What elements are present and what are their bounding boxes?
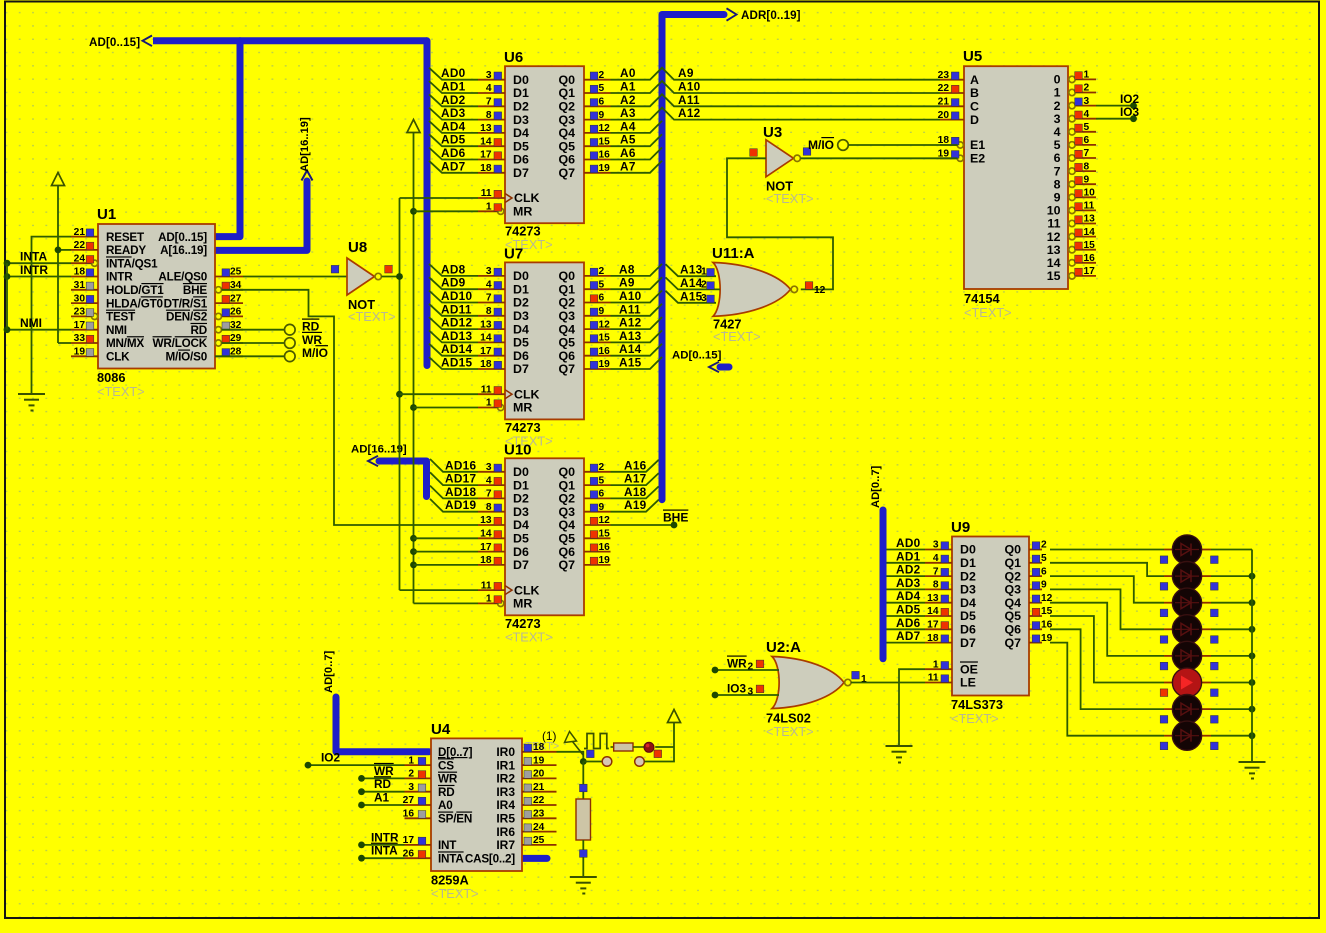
wire vcc rail to U6/U7/U10 MR and U10 D5-D7 <box>413 133 415 604</box>
svg-text:D6: D6 <box>513 545 529 559</box>
LED D8 <box>1160 721 1218 750</box>
svg-text:9: 9 <box>1084 174 1090 185</box>
svg-text:A: A <box>970 73 979 87</box>
svg-text:MR: MR <box>513 401 532 415</box>
U1 right pin 29 WR/LOCK <box>153 333 243 350</box>
U7 pin 8 D3 input AD11 <box>429 302 529 323</box>
svg-text:7: 7 <box>1084 148 1090 159</box>
svg-text:7: 7 <box>486 293 492 304</box>
svg-text:U9: U9 <box>951 519 970 536</box>
svg-text:D1: D1 <box>513 86 529 100</box>
svg-text:AD1: AD1 <box>896 549 921 563</box>
svg-text:8: 8 <box>1054 177 1061 191</box>
svg-text:2: 2 <box>1041 540 1047 551</box>
svg-text:Q3: Q3 <box>558 505 575 519</box>
svg-text:<TEXT>: <TEXT> <box>766 724 814 739</box>
svg-text:AD19: AD19 <box>445 498 476 512</box>
U5 pin 8 output 7 <box>1054 161 1096 178</box>
U1 right pin 28 M/IO/S0 <box>166 347 244 364</box>
svg-text:6: 6 <box>1084 135 1090 146</box>
svg-text:D4: D4 <box>513 518 529 532</box>
U9 pin 12 Q4 output <box>1004 593 1052 610</box>
U9 pin 8 D3 from bus AD3 <box>887 576 976 597</box>
wire to U10 MR <box>414 602 479 604</box>
svg-text:2: 2 <box>408 769 414 780</box>
U9 pin 18 D7 from bus AD7 <box>887 629 976 650</box>
svg-text:Q6: Q6 <box>558 153 575 167</box>
svg-text:A6: A6 <box>620 146 636 160</box>
svg-text:INTR: INTR <box>371 830 399 844</box>
svg-text:U5: U5 <box>963 48 982 65</box>
wire BHE from U1 to U10 D4 <box>222 290 479 525</box>
svg-text:D6: D6 <box>960 623 976 637</box>
junction U7 CLK tap <box>396 391 403 398</box>
svg-text:A0: A0 <box>438 799 453 812</box>
svg-text:11: 11 <box>481 580 492 591</box>
U9 pin 13 D4 from bus AD4 <box>887 589 976 610</box>
svg-text:11: 11 <box>1047 217 1060 231</box>
svg-text:Q4: Q4 <box>558 518 575 532</box>
wire U6 Q7 (A7) into bus <box>611 159 663 173</box>
svg-text:2: 2 <box>748 662 754 673</box>
svg-text:A11: A11 <box>678 93 700 107</box>
svg-text:18: 18 <box>480 163 492 174</box>
switch SW1 contacts and lever <box>542 729 644 766</box>
U10 pin 16 Q6 output <box>558 542 610 559</box>
wire bus entry A13 to U11 input 1 <box>666 263 717 278</box>
svg-text:22: 22 <box>533 795 545 806</box>
svg-text:MN/MX: MN/MX <box>106 337 144 350</box>
svg-text:15: 15 <box>599 136 611 147</box>
U1 right pin bus A[16..19] <box>160 244 207 257</box>
svg-text:CAS[0..2]: CAS[0..2] <box>465 852 515 865</box>
terminal M/IO with wire <box>215 346 328 362</box>
svg-text:INTR: INTR <box>106 271 133 284</box>
svg-text:Q1: Q1 <box>558 478 575 492</box>
svg-text:D5: D5 <box>513 336 529 350</box>
svg-text:8: 8 <box>486 306 492 317</box>
U5 pin 18 E1 <box>938 135 986 152</box>
svg-text:NMI: NMI <box>20 316 42 330</box>
wire LED D5 cathode to ground rail <box>1211 655 1252 657</box>
svg-text:D0: D0 <box>513 269 529 283</box>
junction ground rail at LED D2 <box>1249 573 1256 580</box>
svg-text:11: 11 <box>1084 201 1095 212</box>
svg-text:13: 13 <box>1084 214 1096 225</box>
svg-text:CLK: CLK <box>514 191 540 205</box>
svg-text:AD0: AD0 <box>441 66 466 80</box>
svg-text:A1: A1 <box>620 80 636 94</box>
power vcc arrow at switch circuit <box>668 710 681 723</box>
resistor R2 horizontal <box>611 743 645 751</box>
wire READY to vcc rail <box>58 249 71 251</box>
svg-text:B: B <box>970 86 979 100</box>
svg-text:2: 2 <box>1084 83 1090 94</box>
svg-text:D5: D5 <box>513 139 529 153</box>
svg-text:A10: A10 <box>678 80 701 94</box>
chip U1 8086 body <box>97 206 215 399</box>
svg-text:4: 4 <box>1084 109 1090 120</box>
svg-text:2: 2 <box>599 266 605 277</box>
U6 pin 9 Q3 output A3 <box>558 110 610 127</box>
svg-text:AD[0..15]: AD[0..15] <box>672 350 722 362</box>
svg-text:11: 11 <box>928 673 939 684</box>
wire switch to vcc rail <box>644 723 674 762</box>
svg-text:13: 13 <box>480 123 492 134</box>
svg-text:14: 14 <box>1047 256 1061 270</box>
wire to U10 CLK <box>400 589 479 591</box>
U1 pin 19 CLK <box>71 347 130 364</box>
svg-text:Q7: Q7 <box>558 166 575 180</box>
U6 pin 18 D7 input AD7 <box>429 159 529 180</box>
wire red dot to vcc rail <box>655 746 674 748</box>
svg-text:D1: D1 <box>513 478 529 492</box>
wire left rail INTA-INTR-NMI <box>6 263 8 330</box>
U6 pin 1 MR <box>478 202 504 215</box>
svg-text:15: 15 <box>599 333 611 344</box>
svg-text:CLK: CLK <box>106 351 130 364</box>
wire U9 OE to ground <box>899 669 925 746</box>
svg-text:INTA: INTA <box>438 852 464 865</box>
svg-text:RESET: RESET <box>106 231 145 244</box>
svg-text:5: 5 <box>599 279 605 290</box>
svg-text:9: 9 <box>599 502 605 513</box>
svg-text:IO2: IO2 <box>321 751 340 765</box>
U10 pin 15 Q5 output <box>558 529 610 546</box>
svg-text:13: 13 <box>927 593 939 604</box>
svg-text:AD6: AD6 <box>441 146 466 160</box>
svg-text:CLK: CLK <box>514 583 540 597</box>
svg-text:74154: 74154 <box>964 291 1000 306</box>
U6 pin 13 D4 input AD4 <box>429 119 529 140</box>
svg-text:AD12: AD12 <box>441 316 472 330</box>
U4 pin 19 IR1 <box>496 755 556 772</box>
U6 pin 16 Q6 output A6 <box>558 150 610 167</box>
svg-text:Q3: Q3 <box>558 113 575 127</box>
U6 pin 6 Q2 output A2 <box>558 97 610 114</box>
svg-text:D7: D7 <box>960 636 976 650</box>
svg-text:C: C <box>970 100 979 114</box>
svg-text:AD[0..7]: AD[0..7] <box>323 650 335 693</box>
svg-text:10: 10 <box>1047 204 1061 218</box>
svg-text:U11:A: U11:A <box>712 245 755 262</box>
svg-text:D0: D0 <box>960 543 976 557</box>
U10 pin 7 D2 input AD18 <box>478 489 529 506</box>
svg-text:D7: D7 <box>513 166 529 180</box>
svg-text:AD[16..19]: AD[16..19] <box>351 444 407 456</box>
svg-text:DEN/S2: DEN/S2 <box>166 311 208 324</box>
svg-text:AD9: AD9 <box>441 276 466 290</box>
svg-text:6: 6 <box>599 97 605 108</box>
svg-text:Q4: Q4 <box>558 322 575 336</box>
svg-text:Q4: Q4 <box>1004 596 1021 610</box>
svg-text:D2: D2 <box>513 100 529 114</box>
wire to U10 D5 <box>414 537 479 539</box>
svg-text:OE: OE <box>960 662 978 676</box>
svg-text:AD17: AD17 <box>445 472 476 486</box>
U10 pin 13 D4 input <box>478 515 529 532</box>
U4 pin 25 IR7 <box>496 835 556 852</box>
U1 right pin 34 BHE <box>183 280 243 297</box>
svg-text:8: 8 <box>933 580 939 591</box>
svg-text:15: 15 <box>1084 240 1096 251</box>
wire node A1 to U4 <box>358 791 404 809</box>
ground below U1 <box>18 394 45 411</box>
bus U1 A[16..19] pin to up-arrow AD[16..19] <box>216 117 313 250</box>
svg-text:30: 30 <box>74 293 86 304</box>
terminal M/IO to U5 E1 <box>808 138 958 152</box>
svg-text:ADR[0..19]: ADR[0..19] <box>741 9 801 22</box>
svg-text:D[0..7]: D[0..7] <box>438 746 473 759</box>
svg-text:AD11: AD11 <box>441 302 472 316</box>
svg-text:18: 18 <box>480 555 492 566</box>
U6 pin 3 D0 input AD0 <box>429 66 529 87</box>
wire to U10 D7 <box>414 564 479 566</box>
svg-text:RD: RD <box>191 324 207 337</box>
svg-text:14: 14 <box>480 333 492 344</box>
U4 pin 21 IR3 <box>496 782 556 799</box>
U10 pin 14 D5 input <box>478 529 529 546</box>
U5 pin 15 output 13 <box>1047 240 1096 257</box>
U6 pin 11 CLK <box>478 188 505 199</box>
U7 pin 18 D7 input AD15 <box>429 356 529 377</box>
svg-text:6: 6 <box>599 293 605 304</box>
U7 pin 6 Q2 output A10 <box>558 293 610 310</box>
U5 pin 10 output 9 <box>1054 188 1096 205</box>
U5 pin 5 output 4 <box>1054 122 1096 139</box>
U10 pin 18 D7 input <box>478 555 529 572</box>
svg-text:22: 22 <box>74 240 86 251</box>
gate U8 NOT (74xx inverter) <box>331 239 395 324</box>
U7 pin 4 D1 input AD9 <box>429 276 529 297</box>
U10 pin 5 Q1 output A17 <box>558 475 610 492</box>
wire to U6 CLK <box>400 197 479 199</box>
svg-text:WR: WR <box>302 333 322 347</box>
U1 pin 22 READY <box>71 240 146 257</box>
svg-text:13: 13 <box>1047 243 1061 257</box>
svg-text:D2: D2 <box>513 492 529 506</box>
wire MN/MX to vcc rail <box>58 342 71 344</box>
svg-text:3: 3 <box>701 293 707 304</box>
svg-text:U7: U7 <box>504 245 523 262</box>
svg-text:<TEXT>: <TEXT> <box>951 711 999 726</box>
svg-text:16: 16 <box>599 542 611 553</box>
U6 pin 4 D1 input AD1 <box>429 80 529 101</box>
svg-text:12: 12 <box>599 123 611 134</box>
svg-text:INTR: INTR <box>20 263 48 277</box>
svg-text:D3: D3 <box>513 309 529 323</box>
junction U8 out <box>396 273 403 280</box>
chip U7 74273 body <box>504 245 584 448</box>
svg-text:21: 21 <box>74 227 86 238</box>
svg-text:IR5: IR5 <box>496 812 515 826</box>
svg-text:IO2: IO2 <box>1120 92 1139 106</box>
U7 pin 13 D4 input AD12 <box>429 316 529 337</box>
wire node RD to U4 <box>358 777 404 795</box>
U5 pin 2 output 1 <box>1054 83 1096 100</box>
LED D7 <box>1160 695 1218 724</box>
svg-text:Q7: Q7 <box>558 558 575 572</box>
svg-text:Q6: Q6 <box>558 545 575 559</box>
wire U4 IR0 to switch junction <box>557 752 584 762</box>
svg-text:TEST: TEST <box>106 311 136 324</box>
svg-text:D4: D4 <box>513 322 529 336</box>
svg-text:25: 25 <box>533 835 545 846</box>
U10 pin 1 MR <box>478 594 504 607</box>
svg-text:AD[0..15]: AD[0..15] <box>89 36 140 49</box>
U5 pin 6 output 5 <box>1054 135 1096 152</box>
U9 pin 14 D5 from bus AD5 <box>887 603 976 624</box>
U9 pin 11 LE <box>925 673 976 690</box>
power vcc arrow above U1 <box>52 173 65 344</box>
U5 pin 23 input A <box>938 70 979 87</box>
wire to U7 MR <box>414 407 479 409</box>
LED D5 <box>1160 641 1218 670</box>
terminal RD with wire <box>222 320 320 336</box>
svg-text:24: 24 <box>533 822 545 833</box>
svg-text:IO3: IO3 <box>1120 105 1139 119</box>
svg-text:Q1: Q1 <box>1004 556 1021 570</box>
svg-text:A17: A17 <box>624 472 647 486</box>
svg-text:E1: E1 <box>970 138 985 152</box>
wire LED D4 cathode to ground rail <box>1211 628 1252 630</box>
svg-text:(1): (1) <box>542 729 556 743</box>
wire U7 Q2 (A10) into bus <box>611 289 663 303</box>
svg-text:D: D <box>970 113 979 127</box>
U5 pin 16 output 14 <box>1047 253 1096 270</box>
svg-text:19: 19 <box>599 359 611 370</box>
svg-text:U1: U1 <box>97 206 116 223</box>
svg-text:1: 1 <box>933 659 939 670</box>
svg-text:1: 1 <box>486 398 492 409</box>
svg-text:IR0: IR0 <box>496 745 515 759</box>
svg-text:18: 18 <box>533 742 545 753</box>
wire U6 Q1 (A1) to bus hop and on to U5 as A10 <box>611 80 941 94</box>
U9 pin 1 OE <box>925 659 978 676</box>
svg-text:A9: A9 <box>678 66 694 80</box>
svg-text:AD13: AD13 <box>441 329 472 343</box>
wire LED D7 cathode to ground rail <box>1211 708 1252 710</box>
svg-text:5: 5 <box>1054 138 1061 152</box>
svg-text:Q1: Q1 <box>558 282 575 296</box>
wire U9 Q7 to LED D8 <box>1050 643 1164 736</box>
svg-text:<TEXT>: <TEXT> <box>713 329 761 344</box>
svg-text:31: 31 <box>74 280 86 291</box>
U6 pin 14 D5 input AD5 <box>429 133 529 154</box>
svg-text:1: 1 <box>1054 86 1061 100</box>
svg-text:16: 16 <box>1084 253 1096 264</box>
U1 right pin 25 ALE/QS0 <box>158 267 243 284</box>
svg-text:A14: A14 <box>680 276 703 290</box>
svg-text:4: 4 <box>933 553 939 564</box>
svg-text:A7: A7 <box>620 159 636 173</box>
U4 pin 1 CS <box>405 755 455 772</box>
U10 pin 6 Q2 output A18 <box>558 489 610 506</box>
svg-text:A8: A8 <box>619 262 635 276</box>
svg-text:Q2: Q2 <box>1004 569 1021 583</box>
svg-text:9: 9 <box>599 110 605 121</box>
svg-text:1: 1 <box>1084 70 1090 81</box>
svg-text:4: 4 <box>486 83 492 94</box>
junction ground rail at LED D4 <box>1249 626 1256 633</box>
wire bus entry A14 to U11 input 2 <box>666 276 721 291</box>
wire U9 Q3 to LED D4 <box>1050 589 1164 629</box>
svg-text:7: 7 <box>1054 164 1061 178</box>
svg-text:17: 17 <box>480 542 492 553</box>
node INTA wire <box>4 250 71 267</box>
U7 pin 2 Q0 output A8 <box>558 266 610 283</box>
svg-text:A4: A4 <box>620 119 636 133</box>
svg-text:AD7: AD7 <box>896 629 921 643</box>
svg-text:16: 16 <box>403 809 415 820</box>
svg-text:3: 3 <box>408 782 414 793</box>
svg-text:AD4: AD4 <box>896 589 921 603</box>
svg-text:<TEXT>: <TEXT> <box>964 305 1012 320</box>
U7 pin 5 Q1 output A9 <box>558 279 610 296</box>
svg-text:AD[0..15]: AD[0..15] <box>158 231 207 244</box>
U9 pin 9 Q3 output <box>1004 580 1047 597</box>
node INTR wire <box>4 263 71 280</box>
svg-text:RD: RD <box>374 777 392 791</box>
svg-text:11: 11 <box>481 188 492 199</box>
svg-text:A3: A3 <box>620 106 636 120</box>
LED D2 <box>1160 562 1218 591</box>
power vcc arrow above MR rail <box>407 120 420 133</box>
U5 pin 13 output 11 <box>1047 214 1096 231</box>
svg-text:Q1: Q1 <box>558 86 575 100</box>
wire node IO2 to U4 CS <box>305 751 405 769</box>
svg-text:INTA: INTA <box>20 250 47 264</box>
svg-text:LE: LE <box>960 676 976 690</box>
U9 pin 19 Q7 output <box>1004 633 1052 650</box>
chip U10 74273 body <box>504 441 584 644</box>
U9 pin 15 Q5 output <box>1004 606 1052 623</box>
U9 pin 6 Q2 output <box>1004 566 1047 583</box>
wire U7 Q7 (A15) into bus <box>611 356 663 370</box>
svg-text:D1: D1 <box>960 556 976 570</box>
wire node INTR to U4 INT <box>358 830 404 848</box>
svg-text:AD2: AD2 <box>441 93 466 107</box>
svg-text:21: 21 <box>533 782 545 793</box>
LED D1 <box>1160 535 1218 564</box>
bus ADR[0..19] with right arrow label <box>662 8 801 499</box>
svg-text:IR6: IR6 <box>496 825 515 839</box>
svg-text:U4: U4 <box>431 721 451 738</box>
svg-text:74LS373: 74LS373 <box>951 697 1003 712</box>
gate U2:A 74LS02 NOR <box>766 639 867 739</box>
svg-text:17: 17 <box>480 346 492 357</box>
wire U9 Q4 to LED D5 <box>1050 603 1164 656</box>
U6 pin 12 Q4 output A4 <box>558 123 610 140</box>
LED D4 <box>1160 615 1218 644</box>
U4 pin 2 WR <box>405 769 458 786</box>
svg-text:AD5: AD5 <box>896 603 921 617</box>
junction U10 D6 tap <box>410 548 417 555</box>
wire LED D2 cathode to ground rail <box>1211 575 1252 577</box>
svg-text:A0: A0 <box>620 66 636 80</box>
bus AD[16..19] to U10 inputs with left arrow label <box>351 444 427 497</box>
svg-text:WR/LOCK: WR/LOCK <box>153 337 208 350</box>
svg-text:A14: A14 <box>619 342 642 356</box>
svg-text:D1: D1 <box>513 282 529 296</box>
svg-text:IR2: IR2 <box>496 772 515 786</box>
U1 pin 23 TEST <box>71 307 136 324</box>
svg-text:<TEXT>: <TEXT> <box>348 309 396 324</box>
LED D6 (lit) <box>1160 668 1218 697</box>
svg-text:D2: D2 <box>513 296 529 310</box>
svg-text:0: 0 <box>1054 73 1061 87</box>
svg-text:D6: D6 <box>513 349 529 363</box>
